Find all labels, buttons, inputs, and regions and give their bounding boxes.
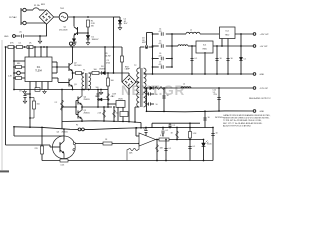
svg-text:0.1: 0.1 xyxy=(193,146,196,148)
svg-text:10: 10 xyxy=(216,133,218,135)
svg-text:T2 PRI 40T No 22 BIFILAR ON E-: T2 PRI 40T No 22 BIFILAR ON E-E CORE, xyxy=(223,119,262,122)
svg-text:ADJUST R9 FOR 24 V AT BR2.: ADJUST R9 FOR 24 V AT BR2. xyxy=(223,125,252,128)
svg-text:4700: 4700 xyxy=(106,62,110,64)
svg-text:2SC1061: 2SC1061 xyxy=(74,65,82,67)
svg-text:F1 5A: F1 5A xyxy=(34,4,40,7)
svg-text:10: 10 xyxy=(220,58,222,60)
svg-text:10: 10 xyxy=(156,94,158,96)
svg-text:0.1: 0.1 xyxy=(166,130,169,132)
svg-text:L1: L1 xyxy=(190,30,192,32)
svg-text:+5V O/P: +5V O/P xyxy=(260,46,269,48)
svg-text:NEXT.GR: NEXT.GR xyxy=(121,83,185,98)
svg-text:-12V O/P: -12V O/P xyxy=(260,88,269,90)
svg-text:+12V O/P: +12V O/P xyxy=(260,34,270,36)
svg-text:1 AMP: 1 AMP xyxy=(125,68,131,71)
svg-text:C106: C106 xyxy=(207,144,212,146)
svg-text:Q6: Q6 xyxy=(57,131,60,133)
svg-text:0.1: 0.1 xyxy=(195,58,198,60)
svg-text:2N3055: 2N3055 xyxy=(62,131,68,133)
svg-text:GND: GND xyxy=(4,36,9,38)
svg-text:2.2: 2.2 xyxy=(173,125,176,127)
svg-text:GND: GND xyxy=(260,74,265,76)
svg-text:470: 470 xyxy=(159,55,162,57)
svg-text:470: 470 xyxy=(159,43,162,45)
svg-text:SEC 12T CT No 18 AWG BIFILAR W: SEC 12T CT No 18 AWG BIFILAR WOUND. xyxy=(223,122,263,125)
svg-text:2N3055: 2N3055 xyxy=(84,99,90,101)
svg-text:680: 680 xyxy=(17,63,20,65)
svg-text:REGULATED OUTPUT V: REGULATED OUTPUT V xyxy=(249,97,271,100)
svg-text:2SC1308: 2SC1308 xyxy=(59,29,68,31)
svg-text:1KV: 1KV xyxy=(124,23,128,25)
svg-text:1N4007: 1N4007 xyxy=(92,39,100,41)
svg-text:1N4937: 1N4937 xyxy=(99,68,106,70)
svg-text:2N3055: 2N3055 xyxy=(84,112,90,114)
svg-text:GND: GND xyxy=(260,111,265,113)
svg-text:4N35: 4N35 xyxy=(118,98,123,100)
svg-text:150: 150 xyxy=(37,104,40,106)
svg-text:100: 100 xyxy=(111,80,114,82)
svg-text:1W: 1W xyxy=(91,25,94,27)
svg-text:10: 10 xyxy=(231,58,233,60)
svg-text:0.05: 0.05 xyxy=(61,164,65,166)
svg-text:L2: L2 xyxy=(183,84,185,86)
svg-text:C9: C9 xyxy=(19,91,21,93)
svg-text:117VAC: 117VAC xyxy=(9,16,17,19)
svg-text:10: 10 xyxy=(167,95,169,97)
svg-text:270: 270 xyxy=(35,148,38,150)
svg-text:RESISTORS IN OHMS 1/4 W 5% UNL: RESISTORS IN OHMS 1/4 W 5% UNLESS NOTED. xyxy=(223,118,270,120)
svg-text:TL594: TL594 xyxy=(35,71,42,73)
svg-text:470: 470 xyxy=(159,64,162,66)
svg-text:100: 100 xyxy=(96,87,99,89)
svg-text:5.1: 5.1 xyxy=(244,59,247,61)
svg-text:D6: D6 xyxy=(95,96,97,98)
svg-text:10 2W: 10 2W xyxy=(105,56,111,58)
svg-text:470: 470 xyxy=(159,31,162,33)
svg-text:10: 10 xyxy=(208,117,210,119)
svg-text:0.1: 0.1 xyxy=(169,148,172,150)
svg-text:CAPACITORS IN MICROFARADS UNLE: CAPACITORS IN MICROFARADS UNLESS NOTED, xyxy=(223,114,271,117)
svg-text:2.2: 2.2 xyxy=(55,102,58,104)
svg-text:100: 100 xyxy=(94,69,97,71)
svg-text:4937: 4937 xyxy=(142,42,146,44)
svg-text:Q3: Q3 xyxy=(74,84,77,86)
svg-text:F2: F2 xyxy=(76,125,78,127)
svg-text:10: 10 xyxy=(156,104,158,106)
